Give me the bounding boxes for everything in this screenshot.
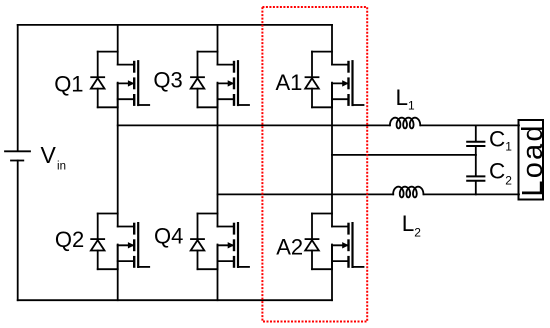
wire left supply (lower) [17,161,19,301]
wire leg2 middle (Q3 source to Q4 drain, phase node B) [217,83,219,227]
load box [519,120,544,200]
wire bottom rail [18,299,332,301]
wire midpoint to capacitor junction [332,154,476,156]
wire phase A to L1 [118,124,390,126]
inductor L1 [390,118,420,129]
svg-text:C1: C1 [489,126,512,153]
wire capacitor C1 bottom to mid rail [475,147,477,155]
transistor Q1 (MOSFET with body diode) [91,52,149,108]
svg-text:Q4: Q4 [154,223,183,248]
wire leg2 Q4 source to bottom rail [217,245,219,301]
svg-text:A2: A2 [276,235,303,260]
svg-text:L1: L1 [396,85,416,113]
wire leg1 Q2 source to bottom rail [117,245,119,301]
svg-text:Q3: Q3 [153,67,182,92]
wire mid rail to C2 top [475,155,477,176]
capacitor C2 [467,176,484,180]
wire left supply (upper) [17,25,19,151]
wire leg1 middle (Q1 source to Q2 drain, phase node A) [117,83,119,227]
wire leg2 drain Q3 [217,25,219,65]
svg-text:Vin: Vin [41,142,66,172]
transistor A1 (MOSFET with body diode) [305,52,363,108]
inductor L2 [393,187,423,198]
wire leg3 A2 source to bottom rail [331,245,333,301]
battery Vin positive plate [5,150,30,152]
svg-text:Load: Load [517,123,549,196]
wire top rail [18,24,332,26]
transistor Q4 (MOSFET with body diode) [191,214,249,270]
wire leg1 drain Q1 [117,25,119,65]
battery Vin negative plate [11,160,23,162]
wire capacitor C2 bottom [475,181,477,194]
svg-text:Q1: Q1 [54,72,83,97]
svg-text:A1: A1 [276,70,303,95]
wire phase B to L2 [218,193,394,195]
wire leg3 drain A1 [331,25,333,65]
wire L2 to load bottom [424,193,519,195]
wire L1 to load top [421,124,519,126]
transistor Q2 (MOSFET with body diode) [91,214,149,270]
capacitor C1 [467,142,484,146]
highlight box (red dashed) [262,7,367,322]
wire leg3 middle (A1 source to A2 drain, midpoint node) [331,83,333,227]
transistor Q3 (MOSFET with body diode) [191,52,249,108]
wire capacitor branch C1 top [475,125,477,141]
svg-text:L2: L2 [402,211,422,240]
transistor A2 (MOSFET with body diode) [305,214,363,270]
svg-text:C2: C2 [489,159,512,188]
svg-text:Q2: Q2 [55,227,84,252]
